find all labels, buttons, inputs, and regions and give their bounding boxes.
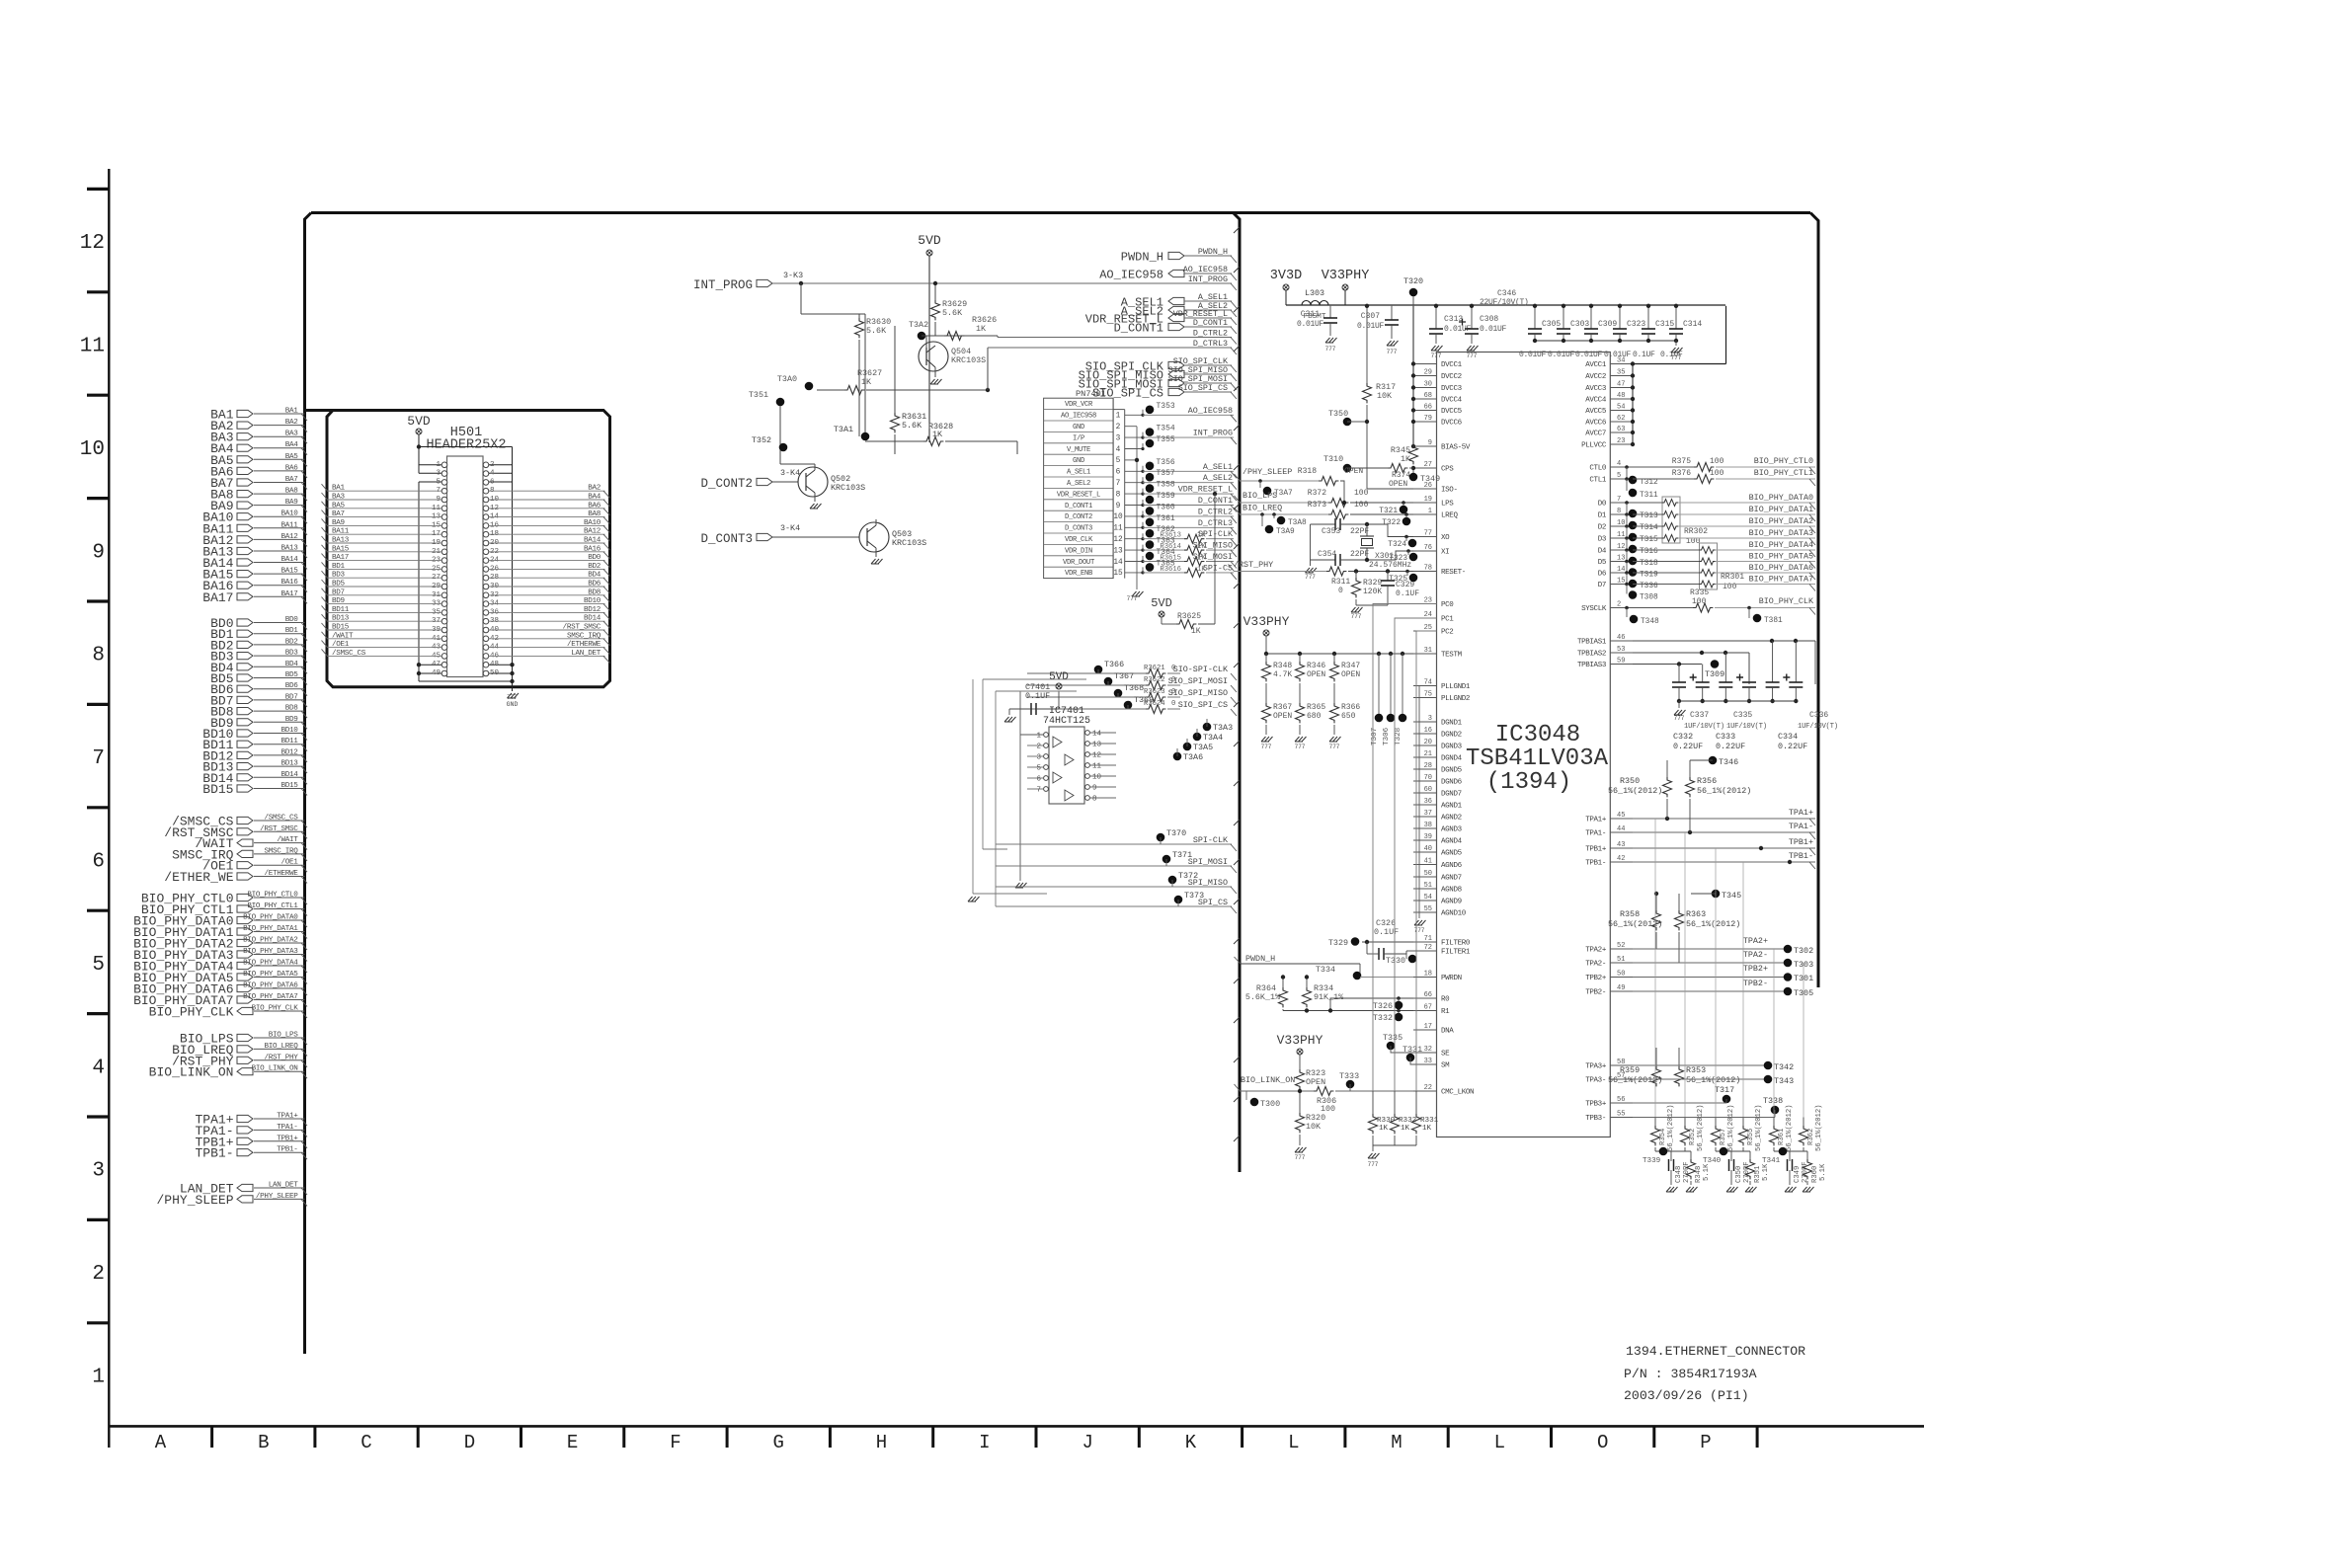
IC7401 pin 6 — [1044, 776, 1049, 781]
IC3048 pin 2 SYSCLK — [1610, 607, 1633, 609]
svg-text:C350: C350 — [1735, 1166, 1743, 1183]
svg-text:T3A9: T3A9 — [1276, 528, 1295, 536]
resistor R3616 1K — [1184, 568, 1204, 577]
svg-text:8: 8 — [1092, 796, 1097, 804]
svg-text:71: 71 — [1424, 935, 1432, 943]
svg-text:777: 777 — [1351, 613, 1362, 620]
wire D7 BIO_PHY_DATA7 — [1633, 584, 1700, 586]
resistor network RR302 100 — [1662, 497, 1680, 543]
svg-text:R350: R350 — [1620, 776, 1640, 786]
wire BD4 from H501 pin 28 — [489, 577, 605, 579]
wire BA15 to H501 pin 21 — [327, 551, 441, 553]
svg-text:AVCC2: AVCC2 — [1585, 373, 1606, 381]
IC7401 pin 14 — [1085, 731, 1090, 736]
capacitor C332 0.22UF — [1678, 665, 1680, 683]
svg-text:BD4: BD4 — [285, 661, 299, 668]
wire R318 to LPS — [1340, 481, 1344, 503]
capacitor C329 0.1UF — [1387, 572, 1389, 582]
svg-text:K: K — [1185, 1432, 1197, 1453]
svg-text:VDR_CLK: VDR_CLK — [1065, 536, 1093, 544]
svg-text:53: 53 — [1617, 646, 1625, 654]
svg-text:BD13: BD13 — [281, 760, 298, 768]
svg-text:C309: C309 — [1598, 320, 1617, 329]
svg-text:45: 45 — [1617, 812, 1625, 820]
svg-text:/RST_SMSC: /RST_SMSC — [563, 624, 601, 632]
svg-text:7: 7 — [1617, 496, 1621, 504]
wire BA13 to H501 pin 19 — [327, 542, 441, 544]
wire CMC_LKON — [1335, 1090, 1413, 1092]
svg-text:TPBIAS1: TPBIAS1 — [1577, 639, 1607, 647]
svg-text:SIO_SPI_CS: SIO_SPI_CS — [1178, 383, 1228, 393]
wire BD14 from H501 pin 38 — [489, 620, 605, 622]
svg-text:77: 77 — [1424, 530, 1432, 538]
wire TPB3+ — [1633, 1102, 1726, 1104]
svg-text:R354: R354 — [1659, 1129, 1667, 1145]
svg-text:T3A4: T3A4 — [1203, 733, 1223, 743]
testpoint T354 — [1141, 436, 1144, 439]
svg-text:AGND9: AGND9 — [1441, 899, 1462, 906]
H501 pin 10 — [483, 497, 489, 503]
wires IC7401 right — [1090, 732, 1116, 734]
capacitor C337 1UF/10V(T) — [1702, 665, 1704, 683]
svg-text:1K: 1K — [1401, 454, 1411, 464]
H501 pin 11 — [441, 506, 447, 511]
svg-text:BA14: BA14 — [584, 537, 601, 545]
wire BA2 from H501 pin 8 — [489, 490, 605, 492]
svg-text:BD14: BD14 — [281, 771, 298, 779]
testpoints T307 T306 T328 — [1377, 652, 1381, 656]
testpoint T346 — [1709, 756, 1718, 765]
svg-text:RR302: RR302 — [1684, 527, 1708, 536]
svg-text:50: 50 — [490, 669, 500, 677]
svg-text:BD5: BD5 — [285, 671, 299, 679]
svg-text:TPB1+: TPB1+ — [277, 1135, 298, 1142]
svg-text:A_SEL2: A_SEL2 — [1203, 473, 1233, 483]
resistor R317 10K — [1366, 306, 1368, 383]
svg-text:FILTER0: FILTER0 — [1441, 940, 1471, 948]
svg-text:5.6K: 5.6K — [942, 308, 963, 318]
svg-text:BD5: BD5 — [332, 581, 346, 588]
svg-text:SM: SM — [1441, 1062, 1450, 1070]
testpoint T353 — [1141, 414, 1144, 417]
svg-text:22UF/10V(T): 22UF/10V(T) — [1480, 298, 1529, 307]
svg-text:BA9: BA9 — [332, 519, 346, 527]
svg-text:D_CONT3: D_CONT3 — [1065, 525, 1092, 533]
wire BA12 from H501 pin 18 — [489, 533, 605, 535]
svg-text:BD0: BD0 — [285, 616, 299, 624]
svg-text:TPB1-: TPB1- — [1585, 860, 1606, 868]
svg-text:TPA1-: TPA1- — [1789, 822, 1813, 831]
svg-text:20: 20 — [1424, 739, 1432, 746]
svg-text:R351: R351 — [1754, 1166, 1762, 1183]
resistor R363 56_1%(2012) — [1678, 894, 1680, 910]
svg-text:V33PHY: V33PHY — [1277, 1033, 1323, 1048]
svg-text:BD3: BD3 — [332, 572, 346, 580]
wire cap bank bottom rail — [1535, 340, 1676, 342]
svg-text:56_1%(2012): 56_1%(2012) — [1697, 786, 1751, 796]
svg-text:TPA1-: TPA1- — [1585, 830, 1606, 838]
transistor Q502 KRC103S — [798, 467, 828, 497]
svg-text:16: 16 — [1424, 727, 1432, 735]
svg-text:PLLVCC: PLLVCC — [1581, 442, 1607, 450]
svg-text:A: A — [155, 1432, 167, 1453]
IC IC3048 TSB41LV03A body — [1437, 353, 1611, 1137]
svg-text:5.1K: 5.1K — [1819, 1163, 1827, 1181]
svg-text:14: 14 — [1092, 731, 1102, 739]
svg-text:TPB1-: TPB1- — [195, 1146, 233, 1161]
svg-text:59: 59 — [1617, 658, 1625, 666]
svg-text:C315: C315 — [1655, 320, 1674, 329]
H501 pin 43 — [441, 645, 447, 651]
svg-text:56_1%(2012): 56_1%(2012) — [1727, 1105, 1735, 1151]
testpoint T325 — [1405, 570, 1409, 574]
IC3048 pin 54 AGND9 — [1413, 900, 1437, 902]
svg-text:22: 22 — [1424, 1084, 1432, 1092]
svg-text:RESET-: RESET- — [1441, 569, 1466, 577]
capacitor C348 270PF — [1670, 1151, 1672, 1161]
svg-text:DGND1: DGND1 — [1441, 720, 1463, 728]
svg-text:D_CONT1: D_CONT1 — [1114, 322, 1163, 336]
testpoint T361 — [1141, 526, 1144, 529]
IC7401 body — [1049, 727, 1084, 804]
svg-text:777: 777 — [507, 694, 518, 701]
IC3048 pin 77 XO — [1413, 536, 1437, 538]
svg-text:T310: T310 — [1323, 454, 1343, 464]
wire PMRDN — [1360, 977, 1413, 979]
svg-text:AGND2: AGND2 — [1441, 815, 1462, 823]
svg-text:100: 100 — [1354, 501, 1369, 510]
svg-text:BIO_LPS: BIO_LPS — [1243, 491, 1277, 501]
svg-text:T314: T314 — [1640, 524, 1658, 532]
svg-text:7: 7 — [1116, 480, 1121, 488]
svg-text:50: 50 — [1424, 870, 1432, 878]
svg-text:T349: T349 — [1420, 474, 1440, 484]
svg-text:66: 66 — [1424, 404, 1432, 412]
svg-text:BD15: BD15 — [332, 624, 350, 632]
svg-text:9: 9 — [1428, 439, 1432, 447]
capacitor C353 22PF — [1311, 523, 1336, 525]
IC3048 pin 63 AVCC7 — [1610, 431, 1633, 433]
svg-text:TSB41LV03A: TSB41LV03A — [1466, 745, 1609, 772]
svg-text:T302: T302 — [1794, 946, 1813, 956]
svg-text:R353: R353 — [1686, 1065, 1706, 1075]
testpoint T352 — [779, 443, 788, 452]
IC3048 pin 50 AGND7 — [1413, 876, 1437, 878]
svg-text:T308: T308 — [1640, 594, 1658, 602]
resistor R365 680 — [1296, 703, 1305, 723]
resistor R356 56_1%(2012) — [1689, 760, 1691, 777]
IC3048 pin DVCC1 — [1413, 363, 1437, 365]
IC7401 pin 9 — [1085, 785, 1090, 790]
wire TESTM net — [1266, 653, 1413, 655]
svg-text:PWDN_H: PWDN_H — [1121, 251, 1163, 265]
svg-text:LPS: LPS — [1441, 501, 1454, 509]
svg-text:777: 777 — [1414, 927, 1425, 934]
svg-text:T3A0: T3A0 — [777, 374, 797, 384]
svg-text:777: 777 — [1305, 574, 1316, 581]
svg-text:BA7: BA7 — [285, 476, 298, 484]
svg-text:C336: C336 — [1809, 711, 1828, 720]
svg-text:2: 2 — [1617, 601, 1621, 609]
svg-text:R346: R346 — [1307, 662, 1325, 670]
svg-text:AGND4: AGND4 — [1441, 838, 1463, 846]
svg-text:BD2: BD2 — [285, 638, 299, 646]
wire D1 BIO_PHY_DATA1 — [1633, 513, 1662, 515]
svg-text:C332: C332 — [1673, 732, 1693, 742]
resistor R323 OPEN — [1296, 1069, 1305, 1089]
svg-text:RR301: RR301 — [1721, 573, 1744, 582]
svg-text:680: 680 — [1307, 712, 1322, 721]
svg-text:P/N : 3854R17193A: P/N : 3854R17193A — [1624, 1367, 1757, 1381]
hierarchical block outline — [311, 211, 1810, 214]
svg-text:BIO_PHY_DATA2: BIO_PHY_DATA2 — [243, 937, 298, 945]
svg-text:0.22UF: 0.22UF — [1778, 742, 1807, 751]
svg-text:AVCC1: AVCC1 — [1585, 361, 1607, 369]
svg-text:BIO_PHY_DATA6: BIO_PHY_DATA6 — [1749, 563, 1813, 573]
svg-text:AGND5: AGND5 — [1441, 850, 1463, 858]
svg-text:18: 18 — [1424, 971, 1432, 979]
svg-text:62: 62 — [1617, 415, 1625, 423]
svg-text:38: 38 — [1424, 822, 1432, 829]
IC3048 pin 41 AGND6 — [1413, 864, 1437, 866]
svg-text:5.6K: 5.6K — [902, 421, 922, 431]
resistor R366 650 — [1330, 703, 1339, 723]
svg-text:AVCC5: AVCC5 — [1585, 408, 1607, 416]
testpoint T319 — [1626, 562, 1628, 572]
svg-text:R363: R363 — [1686, 909, 1706, 919]
testpoint T343 — [1764, 1075, 1773, 1084]
testpoint T3A1 — [861, 432, 870, 441]
resistor R357 56_1%(2012) — [1715, 1118, 1717, 1127]
IC3048 pin 30 DVCC3 — [1413, 387, 1437, 389]
svg-text:5: 5 — [1116, 457, 1121, 465]
svg-text:3: 3 — [92, 1160, 105, 1183]
resistor R350 56_1%(2012) — [1666, 760, 1668, 777]
svg-text:DVCC6: DVCC6 — [1441, 420, 1463, 428]
svg-text:M: M — [1391, 1432, 1402, 1453]
IC3048 pin 9 BIAS-5V — [1413, 445, 1437, 447]
capacitor C335 1UF/10V(T) — [1748, 653, 1750, 682]
testpoint T313 — [1626, 503, 1628, 512]
svg-text:12: 12 — [1617, 543, 1625, 551]
resistor R334 91K_1% — [1306, 978, 1308, 988]
wire TPB2- — [1633, 990, 1788, 992]
H501 pin 20 — [483, 540, 489, 546]
testpoint T342 — [1764, 1061, 1773, 1070]
IC3048 pin 22 CMC_LKON — [1413, 1090, 1437, 1092]
svg-text:KRC103S: KRC103S — [831, 483, 865, 493]
svg-text:11: 11 — [1113, 525, 1123, 533]
wires IC7401 left — [1020, 734, 1043, 736]
ground below PN7401 — [1132, 591, 1144, 596]
wire DGND/AGND rail — [1418, 686, 1420, 919]
wire BD13 to H501 pin 37 — [327, 620, 441, 622]
ground R320 — [1295, 1147, 1307, 1152]
wire TPA3+ — [1633, 1064, 1768, 1066]
resistor R3615 1K — [1184, 557, 1204, 566]
svg-text:T330: T330 — [1386, 956, 1405, 966]
svg-text:/ETHER_WE: /ETHER_WE — [164, 870, 233, 885]
svg-text:BIO_PHY_DATA7: BIO_PHY_DATA7 — [243, 993, 297, 1001]
svg-text:AO_IEC958: AO_IEC958 — [1188, 406, 1233, 416]
svg-text:AGND1: AGND1 — [1441, 803, 1463, 811]
svg-text:INT_PROG: INT_PROG — [693, 278, 753, 292]
svg-text:BD8: BD8 — [285, 705, 299, 713]
svg-text:35: 35 — [1617, 369, 1625, 377]
svg-text:R0: R0 — [1441, 996, 1450, 1004]
svg-text:T338: T338 — [1763, 1096, 1783, 1106]
IC3048 pin 17 DNA — [1413, 1029, 1437, 1031]
resistor R3630 5.6K — [800, 283, 802, 314]
wire TPBIAS1 — [1633, 640, 1815, 642]
svg-text:17: 17 — [1424, 1023, 1432, 1031]
H501 pin 16 — [483, 523, 489, 529]
IC3048 pin 1 LREQ — [1413, 513, 1437, 515]
svg-text:BA13: BA13 — [281, 545, 298, 553]
svg-text:D7: D7 — [1598, 582, 1606, 589]
wire BA16 from H501 pin 22 — [489, 551, 605, 553]
svg-text:PWDN_H: PWDN_H — [1245, 954, 1275, 964]
wire PN7401 pin 9 — [1125, 505, 1143, 507]
svg-text:/WAIT: /WAIT — [332, 632, 354, 640]
svg-text:10: 10 — [1092, 774, 1102, 782]
testpoint T330 — [1405, 954, 1407, 959]
resistor R354 56_1%(2012) — [1654, 1118, 1656, 1127]
svg-text:SPI_MOSI: SPI_MOSI — [1188, 857, 1228, 867]
svg-text:777: 777 — [1467, 353, 1478, 359]
svg-text:TPB1+: TPB1+ — [1585, 846, 1607, 854]
IC7401 pin 10 — [1085, 774, 1090, 779]
IC7401 pin 1 — [1044, 733, 1049, 738]
svg-text:/RST_PHY: /RST_PHY — [1234, 560, 1273, 570]
svg-text:5.6K: 5.6K — [866, 326, 887, 336]
svg-text:3V3D: 3V3D — [1270, 269, 1302, 283]
svg-text:2: 2 — [92, 1263, 105, 1286]
wire BA6 from H501 pin 12 — [489, 508, 605, 510]
svg-text:T316: T316 — [1640, 548, 1658, 556]
svg-text:777: 777 — [1674, 715, 1685, 722]
H501 pin 48 — [483, 662, 489, 667]
svg-text:PWDN_H: PWDN_H — [1198, 247, 1228, 257]
svg-text:AO_IEC958: AO_IEC958 — [1061, 413, 1096, 421]
svg-text:C346: C346 — [1497, 289, 1516, 298]
svg-text:OPEN: OPEN — [1341, 670, 1360, 679]
svg-text:68: 68 — [1424, 392, 1432, 400]
testpoint T303 — [1784, 959, 1793, 968]
wire /ETHERWE from H501 pin 44 — [489, 647, 605, 649]
IC3048 pin 42 TPB1- — [1610, 861, 1633, 863]
H501 pin 6 — [483, 480, 489, 486]
testpoint T364 — [1141, 560, 1144, 563]
resistor R362 56_1%(2012) — [1803, 1118, 1804, 1127]
H501 pin 42 — [483, 636, 489, 642]
wire BD8 from H501 pin 32 — [489, 594, 605, 596]
wire BA10 from H501 pin 16 — [489, 524, 605, 526]
svg-text:1: 1 — [1428, 508, 1432, 515]
svg-text:TPB3+: TPB3+ — [1585, 1101, 1607, 1109]
svg-text:TPB2+: TPB2+ — [1585, 975, 1607, 982]
testpoint T358 — [1141, 493, 1144, 496]
svg-text:BIO_PHY_DATA2: BIO_PHY_DATA2 — [1749, 516, 1813, 526]
resistor R3626 1K — [944, 332, 964, 341]
wire FILTER0 — [1362, 941, 1413, 943]
svg-text:32: 32 — [1424, 1046, 1432, 1054]
testpoint T326 — [1397, 996, 1401, 1000]
IC3048 pin 7 D0 — [1610, 502, 1633, 504]
IC3048 pin 11 D3 — [1610, 537, 1633, 539]
svg-text:67: 67 — [1424, 1004, 1432, 1012]
resistor R373 100 — [1328, 510, 1348, 519]
svg-text:55: 55 — [1617, 1111, 1625, 1119]
IC3048 pin 70 DGND6 — [1413, 780, 1437, 782]
svg-text:11: 11 — [80, 336, 105, 358]
svg-text:PLLGND2: PLLGND2 — [1441, 695, 1470, 703]
testpoint T3A0 — [805, 382, 814, 391]
IC3048 pin 38 AGND3 — [1413, 827, 1437, 829]
svg-text:O: O — [1597, 1432, 1608, 1453]
wire TPA1- — [1633, 831, 1815, 833]
IC3048 pin 8 D1 — [1610, 513, 1633, 515]
svg-text:D_CTRL2: D_CTRL2 — [1193, 329, 1228, 339]
svg-text:BA15: BA15 — [281, 568, 298, 576]
IC7401 pin 13 — [1085, 742, 1090, 746]
block boundary between sections — [1234, 213, 1241, 1173]
svg-text:/ETHERWE: /ETHERWE — [567, 641, 601, 649]
IC3048 pin 3 DGND1 — [1413, 721, 1437, 723]
svg-text:BIO_PHY_CLK: BIO_PHY_CLK — [1759, 596, 1814, 606]
svg-text:6: 6 — [92, 851, 105, 874]
wire TPA2+ — [1633, 948, 1788, 950]
svg-text:D_CONT2: D_CONT2 — [1065, 513, 1092, 521]
svg-text:DVCC1: DVCC1 — [1441, 361, 1463, 369]
svg-text:SMSC_IRQ: SMSC_IRQ — [264, 847, 298, 855]
svg-text:R357: R357 — [1720, 1129, 1727, 1145]
svg-text:BIO_PHY_DATA7: BIO_PHY_DATA7 — [1749, 575, 1813, 585]
svg-text:OPEN: OPEN — [1344, 467, 1363, 476]
svg-text:C305: C305 — [1542, 320, 1561, 329]
svg-text:0.01UF: 0.01UF — [1604, 351, 1632, 359]
H501 pin 33 — [441, 601, 447, 607]
H501 body — [447, 456, 484, 677]
svg-text:T350: T350 — [1328, 409, 1348, 419]
svg-text:BD15: BD15 — [202, 782, 233, 797]
svg-text:R362: R362 — [1807, 1129, 1815, 1145]
testpoint T300 — [1250, 1098, 1259, 1107]
testpoint T339 — [1659, 1147, 1668, 1156]
svg-text:PC2: PC2 — [1441, 629, 1453, 637]
svg-text:4: 4 — [1617, 460, 1621, 468]
svg-text:D_CONT1: D_CONT1 — [1065, 503, 1092, 510]
H501 pin 25 — [441, 567, 447, 573]
svg-text:39: 39 — [1424, 833, 1432, 841]
wire TPA2- — [1633, 962, 1788, 964]
IC7401 buffer 3 — [1053, 772, 1062, 783]
testpoint T351 — [776, 398, 785, 407]
H501 pin 3 — [441, 471, 447, 477]
svg-text:70: 70 — [1424, 774, 1432, 782]
testpoint T3A4 — [1193, 733, 1202, 742]
IC3048 pin 55 TPB3- — [1610, 1117, 1633, 1119]
IC3048 pin 47 AVCC3 — [1610, 387, 1633, 389]
svg-text:BIAS-5V: BIAS-5V — [1441, 444, 1471, 452]
svg-text:R367: R367 — [1273, 703, 1292, 712]
svg-text:T3A2: T3A2 — [909, 320, 928, 330]
svg-text:0.1UF: 0.1UF — [1633, 351, 1655, 359]
svg-text:1K: 1K — [1422, 1125, 1432, 1133]
IC3048 pin 34 AVCC1 — [1610, 363, 1633, 365]
svg-text:TESTM: TESTM — [1441, 652, 1463, 660]
svg-text:4.7K: 4.7K — [1273, 670, 1292, 679]
